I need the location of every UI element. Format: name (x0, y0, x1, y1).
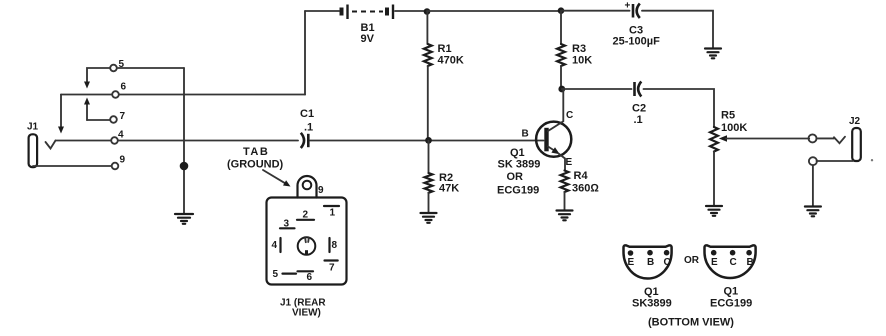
svg-text:TAB: TAB (243, 146, 269, 158)
svg-text:E: E (566, 157, 573, 168)
wire: pin 7 left stub (87, 119, 109, 121)
svg-text:9: 9 (318, 185, 324, 196)
svg-text:J2: J2 (849, 116, 861, 127)
rear view key circle (298, 237, 316, 255)
svg-text:(BOTTOM VIEW): (BOTTOM VIEW) (648, 317, 734, 329)
supply rail left segment (305, 10, 339, 12)
capacitor C1 (301, 133, 309, 148)
switch arrow pin5 to pin6 (84, 68, 110, 89)
junction dot pin9/bus (180, 162, 189, 171)
pin 6 of J1 (112, 91, 119, 98)
svg-text:(GROUND): (GROUND) (227, 159, 284, 171)
rear view pin 7 (325, 261, 338, 274)
battery B1 (342, 5, 394, 20)
pin 5 of J1 (110, 65, 117, 72)
capacitor C3 (633, 4, 640, 19)
svg-text:Q1: Q1 (644, 286, 659, 298)
svg-text:C: C (730, 257, 737, 268)
wire: J1 tip to pin 4 (56, 140, 111, 142)
svg-text:E: E (711, 257, 718, 268)
svg-text:10K: 10K (572, 55, 592, 67)
supply rail R3 node to C3 (561, 10, 630, 12)
J2 tip terminal (809, 134, 817, 142)
wire: J1 sleeve to pin 9 (33, 165, 111, 167)
Q1 SK3899 package bottom view (624, 245, 672, 278)
rear view pin 4 (272, 238, 281, 252)
svg-text:+: + (625, 1, 631, 12)
svg-text:B: B (522, 129, 529, 140)
svg-text:.1: .1 (304, 122, 313, 134)
jack J2 body (852, 128, 861, 161)
supply rail battery to R1 node (395, 10, 427, 12)
wire: pin 6 to battery riser (119, 94, 305, 96)
rear view pin 2 (297, 210, 314, 221)
wire: collector node to C2 (562, 88, 632, 90)
svg-text:7: 7 (120, 111, 126, 122)
switch arrow pin6 to tip line (58, 95, 64, 134)
speck (871, 159, 873, 161)
svg-text:R3: R3 (572, 43, 586, 55)
svg-text:Q1: Q1 (510, 147, 525, 159)
wire: pin 5 to vertical bus (118, 67, 184, 69)
ground: J2 (805, 207, 821, 217)
svg-text:C2: C2 (632, 103, 646, 115)
rear view pin 1 (324, 206, 339, 219)
transistor Q1 (536, 89, 571, 171)
rear view pin 5 (273, 269, 297, 280)
rear view pin 6 (298, 271, 314, 283)
wire: pin 4 to C1 (118, 140, 298, 142)
ground: R2 (421, 213, 437, 223)
svg-text:5: 5 (273, 269, 279, 280)
svg-text:SK3899: SK3899 (632, 298, 672, 310)
svg-text:J1: J1 (27, 122, 39, 133)
wire: R5 wiper to J2 tip (726, 138, 809, 140)
svg-text:B: B (747, 257, 754, 268)
resistor R4 (561, 171, 569, 211)
wire: pin 6 line left stub (61, 94, 112, 96)
ground: R4 (557, 211, 573, 221)
svg-text:6: 6 (121, 82, 127, 93)
pin 4 of J1 (111, 137, 118, 144)
J1 rear view tab (297, 176, 316, 198)
rear view pin 8 (330, 238, 338, 252)
ground: R5 (706, 206, 722, 216)
svg-text:100K: 100K (721, 122, 747, 134)
junction dot rail/R3 (558, 7, 565, 14)
wire: C1 to base node (310, 140, 544, 142)
junction dot base node (425, 137, 432, 144)
svg-text:OR: OR (684, 255, 700, 266)
svg-text:VIEW): VIEW) (292, 308, 321, 319)
svg-text:9V: 9V (361, 33, 375, 45)
resistor R3 (557, 11, 565, 89)
svg-text:E: E (628, 257, 635, 268)
svg-text:R1: R1 (438, 43, 452, 55)
jack J1 tip contact (46, 141, 56, 149)
svg-text:.1: .1 (634, 114, 643, 126)
switch arrow pin7 to pin6 (84, 98, 90, 121)
junction dot rail/R1 (424, 8, 431, 15)
jack J2 tip contact (834, 137, 845, 144)
svg-text:4: 4 (272, 240, 278, 251)
svg-text:C: C (664, 257, 671, 268)
junction dot collector/C2 (558, 86, 565, 93)
svg-text:470K: 470K (438, 55, 464, 67)
potentiometer R5 (710, 127, 727, 206)
wire: C3 to ground corner (642, 11, 713, 49)
wire: sleeve terminal to ground (812, 165, 814, 206)
svg-text:SK 3899: SK 3899 (498, 159, 541, 171)
svg-text:C1: C1 (300, 108, 314, 120)
wire: tip terminal to J2 (817, 137, 835, 139)
svg-text:360Ω: 360Ω (572, 183, 599, 195)
svg-text:C: C (566, 110, 573, 121)
svg-text:9: 9 (120, 155, 126, 166)
ground: C3 (705, 49, 721, 59)
Q1 ECG199 package bottom view (705, 245, 756, 278)
wire: vertical bus x=184 (183, 68, 185, 214)
svg-text:47K: 47K (439, 183, 459, 195)
svg-text:ECG199: ECG199 (497, 185, 539, 197)
svg-text:1: 1 (330, 208, 336, 219)
J1 rear view body (267, 198, 347, 285)
svg-text:6: 6 (307, 272, 313, 283)
svg-text:R4: R4 (574, 170, 589, 182)
resistor R2 (425, 141, 433, 214)
wire: riser up to supply rail (304, 11, 306, 95)
svg-text:25-100µF: 25-100µF (613, 36, 661, 48)
jack J1 body (29, 134, 37, 167)
capacitor C2 (635, 82, 642, 97)
svg-text:ECG199: ECG199 (710, 298, 752, 310)
ground: left bus (175, 214, 193, 224)
rear view pin 3 (280, 219, 295, 230)
wire: C2 to R5 (644, 89, 715, 127)
resistor R1 (424, 12, 432, 141)
svg-text:7: 7 (329, 263, 335, 274)
svg-text:R5: R5 (721, 110, 735, 122)
supply rail R1 node to R3 node (427, 10, 561, 12)
J2 sleeve terminal (809, 157, 817, 165)
svg-text:8: 8 (332, 240, 338, 251)
pin 7 of J1 (110, 116, 117, 123)
tab pointer arrow (263, 170, 291, 187)
svg-text:4: 4 (118, 130, 124, 141)
wire: J2 sleeve to sleeve terminal (817, 160, 854, 162)
svg-text:OR: OR (507, 171, 524, 183)
svg-text:B: B (647, 257, 654, 268)
svg-text:Q1: Q1 (724, 286, 739, 298)
pin 9 of J1 (112, 163, 119, 170)
